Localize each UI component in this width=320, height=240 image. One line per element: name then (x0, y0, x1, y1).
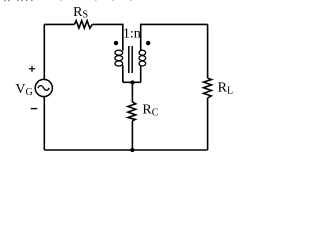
wire transformer primary bottom lead (122, 65, 124, 82)
label plus (29, 66, 35, 72)
wire transformer secondary top lead and top-right horizontal (141, 24, 208, 50)
wire center vertical upper (131, 82, 133, 102)
wire left vertical upper (43, 24, 45, 79)
transformer T1 secondary winding (139, 50, 146, 66)
wire center vertical lower (131, 121, 133, 150)
wire bottom (44, 149, 207, 151)
wire top-left horizontal (44, 23, 74, 25)
source VG circle (35, 79, 52, 96)
resistor RC (128, 102, 136, 121)
wire transformer bottom bus (123, 81, 141, 83)
transformer core (129, 46, 132, 73)
wire right vertical upper (207, 24, 209, 78)
resistor RL (204, 78, 212, 98)
wire right vertical lower (207, 98, 209, 150)
label minus (31, 108, 37, 110)
wire transformer secondary bottom lead (140, 65, 142, 82)
wire top-left to transformer primary (92, 24, 123, 50)
transformer T1 primary winding (115, 50, 123, 66)
resistor RS (74, 21, 92, 29)
polarity dot primary (114, 41, 118, 45)
polarity dot secondary (146, 41, 150, 45)
junction dot bottom center (130, 148, 134, 152)
svg-text:1:n: 1:n (123, 27, 141, 42)
source VG sine wave (38, 86, 49, 91)
wire left vertical lower (43, 97, 45, 150)
cropped text remnant specks at top edge (4, 0, 33, 1)
junction dot transformer bottom (130, 80, 134, 84)
